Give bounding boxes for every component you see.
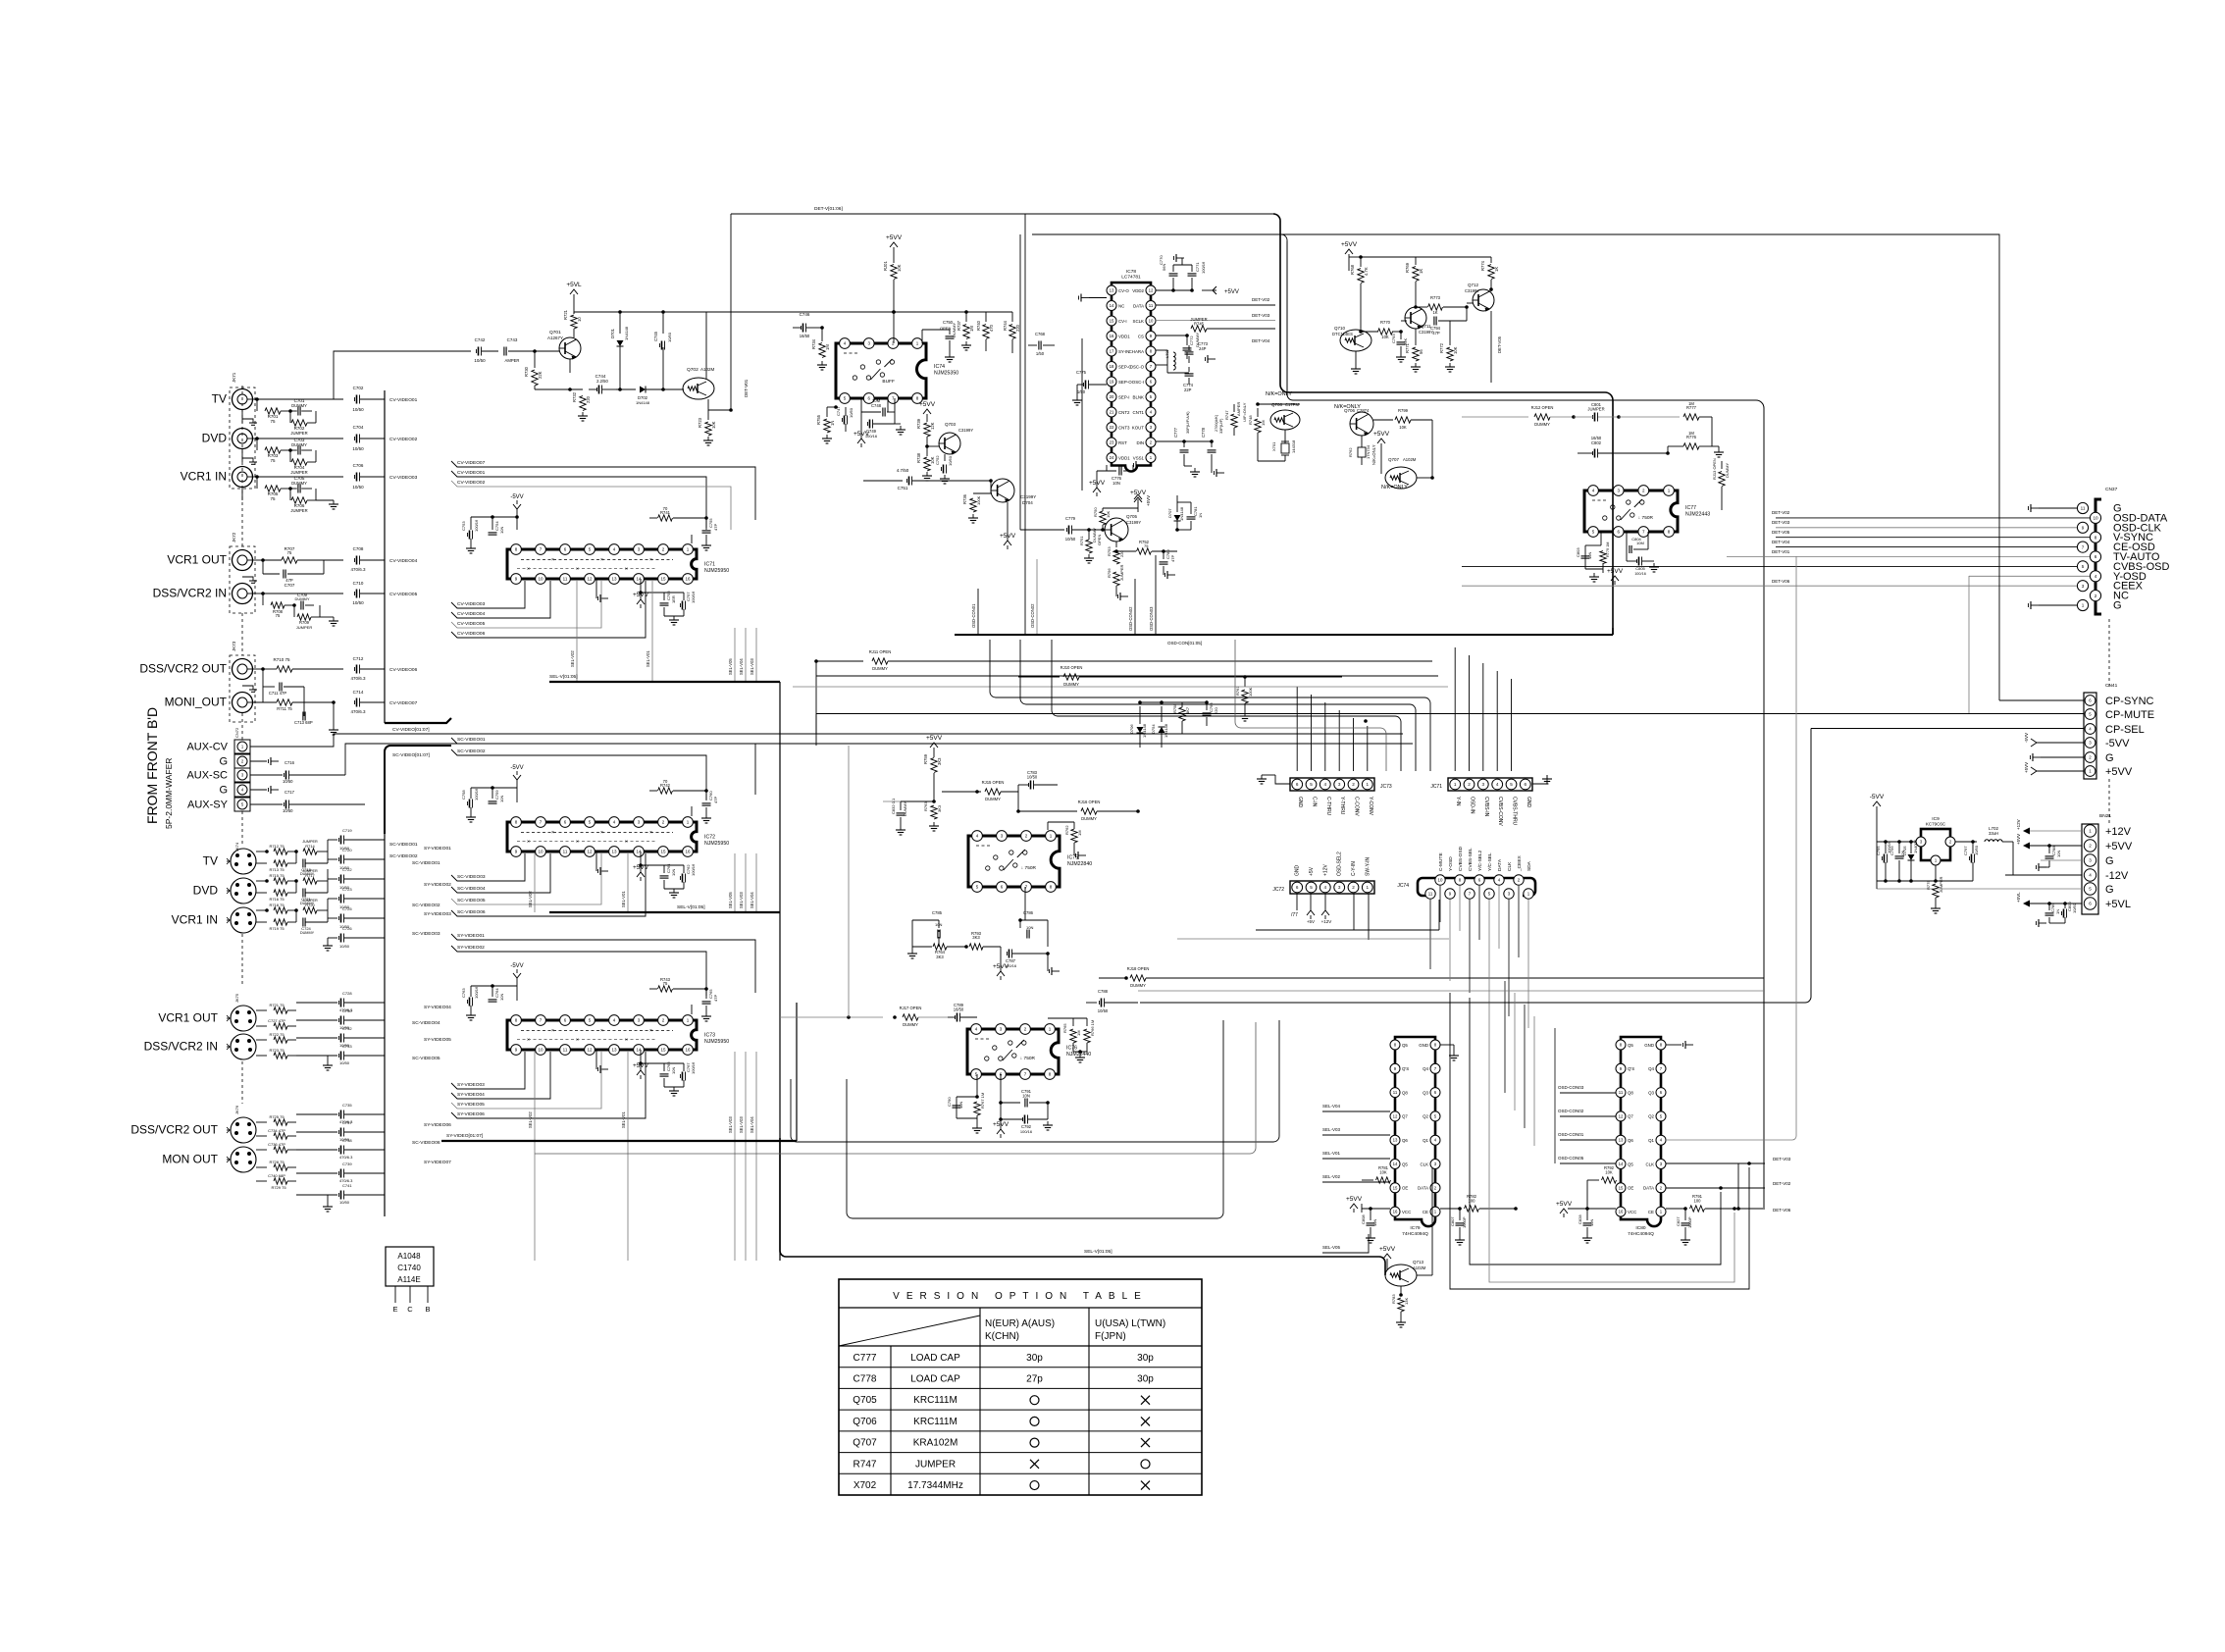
- svg-text:16: 16: [1393, 1210, 1398, 1214]
- svg-text:47P: 47P: [713, 797, 718, 803]
- svg-text:C832 0.1: C832 0.1: [891, 798, 896, 814]
- svg-text:SEP-O: SEP-O: [1118, 380, 1132, 385]
- svg-text:Q4: Q4: [1648, 1066, 1654, 1071]
- resistor R721 10: [563, 309, 582, 337]
- svg-text:N(EUR) A(AUS): N(EUR) A(AUS): [985, 1318, 1055, 1329]
- ground at IC78 NC pin: [1079, 294, 1108, 302]
- svg-text:Q708: Q708: [1271, 402, 1283, 407]
- svg-text:DTC114ES: DTC114ES: [1332, 332, 1353, 336]
- svg-text:DUMMY: DUMMY: [903, 1022, 918, 1027]
- capacitor C708 470/6.3: [350, 546, 385, 572]
- svg-text:R722 75: R722 75: [269, 1032, 285, 1037]
- svg-text:DET-V[01:06]: DET-V[01:06]: [814, 206, 843, 212]
- svg-text:Y-IN: Y-IN: [1455, 797, 1461, 806]
- resistor R747 AMPER jumper: [1224, 402, 1247, 436]
- svg-text:×: ×: [649, 1028, 652, 1034]
- svg-text:C772: C772: [1189, 336, 1194, 345]
- ground at CN37 pin11: [2029, 504, 2078, 512]
- capacitor C701 DUMMY: [290, 398, 312, 416]
- svg-text:GND: GND: [1526, 797, 1531, 808]
- power +5VV at IC73 pin16 + C766/C767: [633, 1050, 696, 1096]
- svg-text:IC80: IC80: [1635, 1225, 1645, 1231]
- wire TV-AUTO long: [1727, 556, 2090, 558]
- svg-text:100: 100: [1694, 1199, 1702, 1204]
- capacitor C747 10/50: [836, 406, 854, 432]
- svg-text:+12V: +12V: [2016, 819, 2021, 830]
- svg-text:10/50: 10/50: [352, 446, 364, 451]
- ground at IC80 GND pin: [1666, 1041, 1693, 1049]
- svg-text:JUMPER: JUMPER: [290, 470, 307, 475]
- svg-text:DUMMY: DUMMY: [1534, 422, 1550, 427]
- svg-text:R768: R768: [1350, 264, 1355, 275]
- capacitor C763 100/16 + C764 10N: [461, 984, 517, 1020]
- svg-text:↓ 750R: ↓ 750R: [1638, 515, 1654, 521]
- net label SC-VIDEO01 at IC72: [451, 737, 755, 795]
- svg-text:OSD-CON02: OSD-CON02: [1128, 606, 1133, 631]
- capacitor C785 10N: [912, 910, 943, 947]
- wire IC80 Q1 to right riser: [1666, 556, 1796, 1140]
- svg-text:R777: R777: [1686, 405, 1697, 410]
- svg-text:SY-VIDEO01: SY-VIDEO01: [424, 846, 451, 852]
- capacitor C752 10/50: [935, 454, 953, 484]
- svg-text:R770: R770: [1380, 320, 1391, 325]
- svg-text:13: 13: [1619, 1138, 1624, 1143]
- svg-text:SC-VIDEO03: SC-VIDEO03: [412, 931, 440, 937]
- svg-text:5P-2.0MM-WAFER: 5P-2.0MM-WAFER: [164, 758, 174, 829]
- svg-text:CV-VIDEO[01:07]: CV-VIDEO[01:07]: [392, 727, 430, 733]
- resistor R753 220: [1107, 542, 1124, 564]
- svg-text:×: ×: [551, 557, 554, 563]
- capacitor C744 2.2/50: [589, 374, 616, 394]
- capacitor C713 68P: [294, 687, 313, 725]
- svg-text:Q707: Q707: [1388, 457, 1400, 462]
- net label DET-V03 bottom right: [1666, 1157, 1791, 1165]
- svg-text:R769: R769: [1405, 262, 1410, 273]
- svg-text:C741: C741: [342, 1183, 352, 1188]
- svg-text:SDA: SDA: [1526, 860, 1532, 871]
- svg-text:1N: 1N: [1198, 513, 1203, 518]
- resistor R764 3K3 + R793 3K3: [907, 931, 1001, 959]
- svg-text:21: 21: [1110, 410, 1114, 415]
- capacitor C828 10N + power +5VV at IC80 VCC: [1556, 1201, 1616, 1243]
- S-video jack VCR1 OUT: [158, 1006, 256, 1031]
- svg-text:470/6.3: 470/6.3: [350, 567, 366, 572]
- svg-text:C720: C720: [342, 848, 352, 852]
- svg-text:11: 11: [563, 577, 568, 582]
- svg-text:↓ 750R: ↓ 750R: [1020, 1056, 1036, 1061]
- svg-text:CV-VIDEO07: CV-VIDEO07: [457, 460, 486, 466]
- net label CV-VIDEO03 at IC71 bottom: [451, 581, 525, 608]
- svg-text:17N734: 17N734: [1366, 444, 1371, 459]
- svg-text:IC79: IC79: [1410, 1225, 1420, 1231]
- svg-text:1: 1: [1454, 782, 1457, 787]
- svg-text:10N: 10N: [1372, 1219, 1377, 1226]
- svg-text:R765: R765: [1062, 1023, 1067, 1033]
- svg-text:SEL-V01: SEL-V01: [621, 891, 626, 907]
- svg-text:CP-SEL: CP-SEL: [2105, 724, 2145, 736]
- capacitor C790 10N + resistor R767 1M: [947, 1074, 985, 1133]
- svg-text:DUMMY: DUMMY: [985, 797, 1001, 801]
- resistor R741 70: [649, 506, 706, 543]
- svg-text:+12V: +12V: [1321, 919, 1332, 924]
- power -5VV arrow above IC9: [1870, 794, 1885, 842]
- capacitor C732 10/50: [296, 1026, 385, 1048]
- resistor R752 75: [1116, 540, 1177, 554]
- svg-text:CP-MUTE: CP-MUTE: [2105, 709, 2154, 721]
- svg-text:↓ 750R: ↓ 750R: [1021, 865, 1037, 871]
- svg-text:+5VV: +5VV: [1379, 1246, 1396, 1253]
- svg-text:3: 3: [1338, 782, 1341, 787]
- svg-text:DET-V02: DET-V02: [1252, 297, 1270, 302]
- resistor R763 3K3 vertical: [923, 801, 942, 831]
- wire IC75 pin7 down: [1024, 887, 1026, 920]
- svg-text:D705: D705: [1902, 846, 1907, 855]
- svg-text:OSD-SEL2: OSD-SEL2: [1337, 852, 1343, 876]
- power +5VV at IC78 VDD2: [1202, 286, 1239, 295]
- net label CV-VIDEO06: [451, 581, 646, 638]
- ground at JC73: [1257, 775, 1290, 784]
- svg-text:DATA: DATA: [1643, 1186, 1654, 1191]
- svg-text:Q713: Q713: [1413, 1260, 1424, 1265]
- svg-text:X701: X701: [1271, 441, 1276, 451]
- svg-text:C707: C707: [285, 583, 295, 588]
- svg-text:75: 75: [270, 496, 276, 501]
- svg-text:1M: 1M: [825, 344, 830, 350]
- svg-text:C795: C795: [1876, 846, 1881, 855]
- capacitor C794 47P: [1416, 307, 1467, 336]
- svg-text:SY-VIDEO06: SY-VIDEO06: [424, 1122, 451, 1128]
- svg-text:DUMMY: DUMMY: [1130, 983, 1146, 988]
- capacitor C748 10M: [861, 398, 895, 417]
- svg-text:DET-V03: DET-V03: [1772, 520, 1790, 525]
- capacitor C722 10/50: [328, 867, 385, 890]
- component C736 S-video group3: [256, 1142, 296, 1153]
- capacitor C792 100/16: [993, 1103, 1053, 1138]
- capacitor C758 100/16 + C759 10N: [461, 786, 517, 822]
- svg-text:OSD-IN: OSD-IN: [1470, 797, 1475, 814]
- wire TV tap to C742: [334, 351, 471, 399]
- svg-text:5: 5: [1310, 885, 1313, 890]
- svg-text:27p: 27p: [1026, 1374, 1043, 1385]
- svg-text:R748: R748: [1248, 415, 1253, 425]
- svg-text:3: 3: [2089, 858, 2092, 863]
- svg-text:A102M: A102M: [1403, 457, 1417, 462]
- S-video jack DSS/VCR2 IN: [144, 1034, 256, 1059]
- svg-text:RJ12 OPEN: RJ12 OPEN: [1531, 405, 1554, 410]
- svg-text:NJM25950: NJM25950: [704, 1039, 729, 1045]
- svg-text:VERSION OPTION TABLE: VERSION OPTION TABLE: [893, 1291, 1148, 1302]
- diode D702 1N4148: [616, 387, 665, 406]
- bus SEL-V[01:05] lower thick: [780, 1138, 1385, 1275]
- svg-text:220: 220: [1015, 324, 1020, 332]
- svg-text:CLK: CLK: [1507, 861, 1513, 871]
- svg-text:OE: OE: [1628, 1186, 1633, 1191]
- svg-text:9: 9: [2082, 526, 2085, 531]
- svg-text:75: 75: [1144, 543, 1149, 548]
- svg-text:Q8: Q8: [1628, 1090, 1633, 1095]
- resistor R710 75: [253, 657, 343, 672]
- resistor R772 10K: [1439, 321, 1467, 372]
- svg-text:DUMMY: DUMMY: [872, 666, 888, 671]
- net label OSD-CON03 at IC80: [1558, 1085, 1616, 1093]
- svg-text:R723 75: R723 75: [269, 1048, 285, 1053]
- capacitor C743 AMPER: [504, 337, 537, 363]
- svg-text:D754: D754: [1151, 724, 1156, 734]
- svg-text:13: 13: [611, 577, 617, 582]
- svg-text:IC76: IC76: [1066, 1046, 1077, 1052]
- svg-text:×: ×: [551, 830, 554, 836]
- wire vertical pair center x1040: [1020, 214, 1025, 635]
- svg-text:Q1: Q1: [1423, 1138, 1428, 1143]
- capacitor C795 100/16 + C756 10N + diode D705 1N4004: [1876, 839, 1936, 889]
- svg-text:SY-VIDEO06: SY-VIDEO06: [457, 1111, 485, 1117]
- svg-text:16: 16: [1619, 1210, 1624, 1214]
- wire loops under IC80: [1450, 993, 1749, 1289]
- svg-text:2.2/50: 2.2/50: [596, 379, 608, 384]
- svg-text:24P: 24P: [1199, 346, 1207, 351]
- svg-text:IC73: IC73: [704, 1033, 715, 1039]
- svg-text:IC74: IC74: [934, 364, 945, 370]
- wire CP-SEL corner: [1811, 728, 2084, 730]
- svg-text:1/50: 1/50: [1036, 351, 1045, 356]
- coil L702 33uH: [1985, 826, 2082, 875]
- svg-text:14: 14: [1110, 303, 1114, 308]
- power -5VV at IC73: [510, 963, 523, 1001]
- svg-text:1N: 1N: [2055, 909, 2060, 914]
- capacitor C783 10/50: [1018, 770, 1058, 792]
- svg-text:1N4148: 1N4148: [1179, 506, 1184, 521]
- svg-text:G: G: [2105, 884, 2114, 896]
- svg-text:OSD-CON02: OSD-CON02: [1030, 603, 1035, 628]
- wire inner loop 3 under IC76: [847, 1020, 1223, 1218]
- transistor Q712 C3199Y: [1465, 283, 1494, 312]
- capacitor C702 10/50: [257, 386, 385, 412]
- svg-text:DET-V06: DET-V06: [1773, 1208, 1791, 1213]
- IC IC75 NJM22840 switch: [968, 831, 1092, 893]
- svg-text:RJ15 OPEN: RJ15 OPEN: [982, 780, 1005, 785]
- svg-text:100/16: 100/16: [474, 519, 479, 532]
- svg-text:1N4148: 1N4148: [1142, 723, 1147, 738]
- net label SC-VIDEO02 at IC72: [451, 749, 706, 800]
- svg-text:+5VV: +5VV: [1146, 495, 1151, 506]
- ground JK71 network: [316, 500, 338, 509]
- ground at CN72 pin2: [250, 757, 279, 765]
- power -5VV arrow at CN41: [2024, 733, 2084, 747]
- dashed JK75 chain: [241, 1061, 243, 1104]
- transistor Q711 C3199Y: [1401, 307, 1433, 335]
- svg-text:R767 1M: R767 1M: [980, 1093, 985, 1109]
- svg-text:NJM22840: NJM22840: [1067, 861, 1092, 867]
- bus SC-VIDEO[01:07] label at IC72: [367, 730, 451, 746]
- svg-text:VSS1: VSS1: [1133, 455, 1145, 460]
- svg-text:R762: R762: [1064, 825, 1069, 835]
- svg-text:D701: D701: [610, 328, 615, 338]
- capacitor C724 DUMMY: [296, 910, 328, 935]
- svg-text:8: 8: [2095, 535, 2097, 540]
- svg-text:10N: 10N: [499, 994, 504, 1001]
- RCA jack VCR1 OUT: [167, 550, 252, 571]
- svg-text:30p: 30p: [1026, 1353, 1043, 1364]
- diode D754 1N4148 vertical: [1151, 706, 1168, 748]
- svg-text:GND: GND: [1295, 865, 1301, 877]
- svg-text:10N: 10N: [1587, 552, 1592, 559]
- svg-text:R799: R799: [1398, 408, 1409, 413]
- svg-text:C3199Y: C3199Y: [958, 428, 973, 433]
- svg-text:×: ×: [576, 840, 579, 846]
- component R721 S-video group2: [256, 1003, 296, 1013]
- svg-text:CVBS-IN: CVBS-IN: [1483, 797, 1489, 817]
- svg-text:VDD2: VDD2: [1132, 288, 1144, 293]
- svg-text:DUMMY: DUMMY: [903, 801, 907, 816]
- svg-text:C-THRU: C-THRU: [1325, 797, 1331, 816]
- svg-text:2: 2: [1468, 782, 1471, 787]
- svg-text:Y/C-SEL: Y/C-SEL: [1487, 852, 1493, 871]
- svg-text:RJ17 OPEN: RJ17 OPEN: [900, 1006, 922, 1010]
- svg-text:10/50: 10/50: [1974, 845, 1979, 855]
- svg-text:SEL-V03: SEL-V03: [750, 658, 754, 675]
- svg-text:D707: D707: [1167, 508, 1172, 518]
- svg-text:K(CHN): K(CHN): [985, 1331, 1019, 1342]
- svg-text:C751: C751: [898, 486, 908, 490]
- svg-text:10K: 10K: [1399, 425, 1407, 430]
- svg-text:JC72: JC72: [1272, 887, 1284, 893]
- svg-text:R721: R721: [563, 309, 568, 320]
- svg-text:10K: 10K: [1106, 511, 1111, 518]
- svg-text:SEL-V01: SEL-V01: [646, 650, 650, 667]
- wire G pin5 BN21: [1877, 888, 2082, 890]
- svg-text:DET-V01: DET-V01: [744, 379, 749, 397]
- svg-text:SY-VIDEO01: SY-VIDEO01: [457, 933, 485, 939]
- svg-text:JK72: JK72: [232, 532, 236, 542]
- capacitor C791 10N: [999, 1074, 1050, 1108]
- svg-text:C779: C779: [1065, 516, 1076, 521]
- IC IC9 KC79C6C regulator: [1916, 816, 1955, 865]
- svg-text:10: 10: [538, 1048, 543, 1053]
- wire vertical x2007 grey: [1968, 576, 1970, 713]
- svg-text:1N4148: 1N4148: [636, 400, 650, 405]
- svg-text:5: 5: [1510, 782, 1513, 787]
- svg-text:U(USA) L(TWN): U(USA) L(TWN): [1095, 1318, 1165, 1329]
- bus SY-VIDEO[01:07] thick: [441, 1003, 797, 1141]
- connector JC73 header: [1290, 778, 1392, 816]
- svg-text:JUMPER: JUMPER: [302, 869, 318, 873]
- capacitor C772 DUMMY: [1183, 333, 1201, 359]
- svg-text:D706: D706: [1129, 724, 1134, 734]
- svg-text:DSS/VCR2 IN: DSS/VCR2 IN: [144, 1040, 218, 1054]
- svg-text:1M: 1M: [969, 326, 974, 332]
- svg-text:220: 220: [1214, 707, 1218, 714]
- svg-text:CV-I: CV-I: [1118, 319, 1127, 324]
- svg-text:6: 6: [1296, 885, 1299, 890]
- svg-text:-12V: -12V: [2105, 870, 2129, 882]
- svg-text:×: ×: [600, 557, 603, 563]
- svg-text:1: 1: [1367, 782, 1370, 787]
- svg-text:C743: C743: [507, 337, 518, 342]
- capacitor C728 470/6.3: [296, 991, 385, 1012]
- resistor R799 10K: [1373, 408, 1432, 430]
- svg-text:10N: 10N: [1112, 481, 1120, 486]
- svg-text:+5VV: +5VV: [886, 234, 903, 241]
- RCA jack DVD: [202, 429, 253, 449]
- svg-text:10/50: 10/50: [849, 407, 854, 418]
- svg-text:15: 15: [660, 1048, 666, 1053]
- resistor R750 10K: [1093, 507, 1138, 532]
- capacitor C751 4.7/50: [863, 468, 993, 490]
- svg-text:+5VV: +5VV: [2024, 762, 2029, 773]
- svg-text:C788: C788: [1098, 989, 1109, 994]
- svg-text:R774: R774: [1480, 260, 1485, 271]
- svg-text:C725: C725: [342, 906, 352, 911]
- svg-text:×: ×: [625, 567, 628, 573]
- svg-text:C710: C710: [353, 581, 364, 586]
- svg-text:C-IN: C-IN: [1312, 797, 1318, 807]
- resistor R771 56: [1405, 329, 1423, 372]
- svg-text:N/K=ONLY: N/K=ONLY: [1381, 485, 1408, 490]
- svg-text:DIN: DIN: [1136, 440, 1144, 445]
- svg-text:CV-VIDEO02: CV-VIDEO02: [389, 437, 418, 442]
- op-switch IC74 NJM25350: [836, 338, 958, 404]
- svg-text:SC-VIDEO02: SC-VIDEO02: [389, 853, 418, 859]
- net label OSD-CON02b vertical: [1128, 579, 1135, 635]
- wire nested loop 4 inner: [1235, 640, 1386, 771]
- svg-text:IC72: IC72: [704, 835, 715, 841]
- svg-text:CV-VIDEO05: CV-VIDEO05: [457, 621, 486, 627]
- svg-text:3: 3: [1338, 885, 1341, 890]
- svg-text:NJM25350: NJM25350: [934, 371, 958, 377]
- svg-text:1K: 1K: [1419, 269, 1423, 274]
- svg-text:10N: 10N: [499, 527, 504, 534]
- resistor R742 70 + C760 47P: [649, 779, 718, 823]
- svg-text:R751: R751: [1079, 536, 1084, 545]
- capacitor C788 10/50: [1086, 989, 1138, 1013]
- svg-text:-5VV: -5VV: [510, 494, 523, 500]
- component C740 S-video group3: [256, 1173, 296, 1184]
- net label SEL-V04 wire: [1322, 1104, 1390, 1111]
- svg-text:100/16: 100/16: [474, 788, 479, 800]
- svg-text:G: G: [219, 756, 228, 768]
- capacitor C779 10/50: [1020, 516, 1103, 542]
- svg-text:BUFF: BUFF: [882, 379, 895, 385]
- svg-text:10: 10: [1149, 319, 1154, 324]
- svg-text:4: 4: [1324, 885, 1327, 890]
- svg-text:10N: 10N: [499, 796, 504, 802]
- power +5VV at IC71 pin16 + C756/C757: [633, 579, 696, 625]
- wire nested loop 3 to JC71: [1052, 640, 1401, 771]
- transistor Q708 C17PM (N/K only): [1266, 391, 1300, 430]
- svg-text:+5VL: +5VL: [566, 282, 582, 288]
- svg-text:C808: C808: [1361, 1214, 1366, 1224]
- svg-text:C717: C717: [285, 790, 295, 795]
- resistor R701 75: [253, 397, 292, 424]
- svg-text:R776: R776: [1686, 435, 1697, 439]
- svg-text:SEL-V05: SEL-V05: [728, 892, 733, 908]
- svg-text:56: 56: [1419, 349, 1423, 354]
- wire G pin3 BN21: [2041, 859, 2082, 861]
- svg-text:10/50: 10/50: [339, 944, 350, 949]
- capacitor C706 10/50: [257, 463, 385, 490]
- svg-text:74HC4094Q: 74HC4094Q: [1628, 1231, 1654, 1237]
- svg-text:16: 16: [685, 577, 691, 582]
- svg-text:C775: C775: [1076, 370, 1087, 375]
- svg-text:10/50: 10/50: [339, 1200, 350, 1205]
- net label SEL-V01 wire: [1322, 1151, 1390, 1159]
- svg-text:_CEEX: _CEEX: [1517, 854, 1523, 872]
- svg-text:SC-VIDEO01: SC-VIDEO01: [457, 737, 486, 743]
- svg-text:CLK: CLK: [1645, 1162, 1654, 1166]
- wire OSD-CON riser to JC71: [1462, 647, 1464, 771]
- svg-text:1ER: 1ER: [671, 595, 676, 603]
- svg-text:JC73: JC73: [1380, 784, 1392, 790]
